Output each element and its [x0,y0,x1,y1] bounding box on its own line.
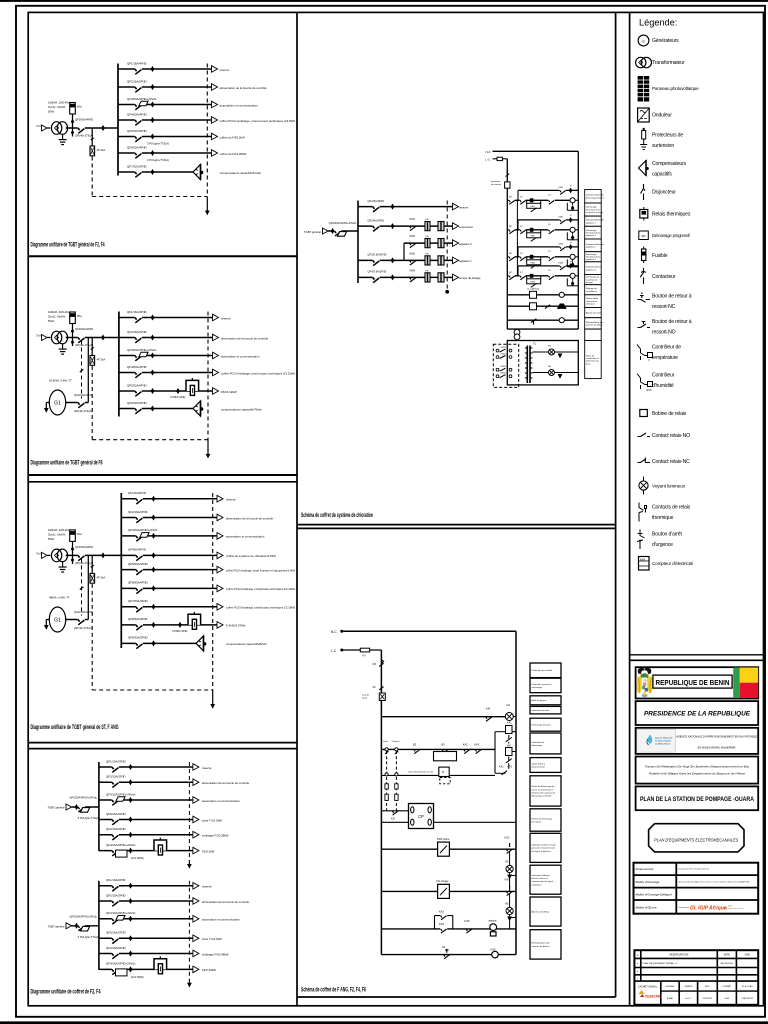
svg-text:FR: FR [426,270,429,272]
svg-text:3 PVLight+TT&(A): 3 PVLight+TT&(A) [147,158,169,162]
svg-text:Panneau photovoltaïque: Panneau photovoltaïque [652,86,699,91]
svg-text:coffret PCGI (éclairage, prise: coffret PCGI (éclairage, prise) locaux t… [220,119,296,123]
junction M1 input [331,228,335,234]
wire dashed right [188,881,190,979]
svg-text:QF2/16A/2P/ID: QF2/16A/2P/ID [128,510,148,514]
svg-text:01/ELE/2021: 01/ELE/2021 [742,998,754,1000]
junction connector [129,764,133,770]
svg-text:Indication/Sortie de: Indication/Sortie de [586,243,605,246]
svg-text:KM4: KM4 [559,263,564,265]
svg-text:automatism et communication: automatism et communication [220,103,259,107]
junction diamond KM3 [569,244,573,250]
wire [493,158,498,160]
wire [47,554,50,556]
wire metering tap [72,324,74,347]
breaker QF2 [112,834,119,836]
svg-text:G1: G1 [54,401,61,407]
legend pushbutton NO icon [638,322,651,328]
svg-text:agitateur 2: agitateur 2 [586,258,597,261]
description cell M2-13 [530,930,561,959]
wire rung S4 [381,954,516,956]
svg-text:distance des signaux de: distance des signaux de [532,792,556,795]
wire feeder [99,918,193,920]
panel border P3 top [28,481,297,483]
wire N-C top [342,630,516,632]
arrow outgoing [193,935,199,942]
wire feeder [99,766,193,768]
arrow down H5 [507,917,512,922]
description cell M1-3 [585,216,602,226]
contact KA3 coil [506,885,512,895]
svg-text:Contacteur: Contacteur [652,274,676,280]
wire outgoing drop [207,440,209,454]
arrow outgoing [217,585,223,592]
wire generator riser [87,555,89,619]
arrow outgoing [212,133,218,140]
wire rung CP top [381,810,408,812]
svg-text:QF5/32A/4P/ID: QF5/32A/4P/ID [127,129,147,133]
svg-text:QF5/16A/2P/ID: QF5/16A/2P/ID [106,931,126,935]
input arrow P1 TGBT F2 F4 [42,125,48,131]
tap marks [71,329,74,334]
generator G1 P2 TGBT F6 [49,390,65,415]
breaker QF1 [135,68,142,70]
breaker QF2 M1 [373,225,380,227]
svg-text:compensateurs capacitifs/5 kVa: compensateurs capacitifs/5 kVar [220,171,262,175]
tap marks [71,546,74,551]
description cell M2-1 [530,663,561,678]
wire [526,230,528,233]
svg-text:KM: KM [507,744,511,747]
coil KA1 box [434,752,457,761]
svg-text:Arrêt d'urgence: Arrêt d'urgence [532,699,548,702]
wire feeder [99,968,193,970]
svg-text:QF2/10A/2P/ID: QF2/10A/2P/ID [106,893,126,897]
svg-text:Indication de arrêt: Indication de arrêt [532,709,550,712]
junction connector [151,315,155,321]
wire rung CP bottom left [381,821,408,823]
busbar M1 [357,201,359,284]
residual device [81,926,90,931]
contact X2 [506,757,512,764]
wire bracket [566,203,568,211]
svg-text:agitateur 1: agitateur 1 [586,234,597,237]
arrow outgoing [217,514,223,521]
legend inverter icon [638,108,650,122]
wire main bus feed [66,554,122,556]
svg-text:Ingénieurs conseils: Ingénieurs conseils [728,908,743,910]
wire [572,259,574,262]
wire [502,158,507,160]
svg-text:FR: FR [373,662,377,666]
wire surge branch [91,338,93,356]
svg-text:Alarmes de défaut: Alarmes de défaut [532,910,550,913]
svg-text:alarmes de défaut: alarmes de défaut [586,324,603,327]
arrow outgoing [193,816,199,823]
capacitor bank compensator [193,164,203,180]
wire feeder [119,355,213,357]
wire generator riser [87,338,89,403]
svg-text:QF2/16A/2P/ID: QF2/16A/2P/ID [127,79,147,83]
svg-text:Contacts de relais: Contacts de relais [652,505,691,511]
breaker QF2 [135,86,142,88]
CESECMIC logo [639,990,645,994]
ground [59,344,67,355]
svg-text:60a: 60a [77,314,82,318]
wire metering tap [72,114,74,137]
wire [540,257,542,260]
svg-text:Indication d'alarme: Indication d'alarme [532,874,551,877]
junction connector [129,898,133,904]
junction connector [152,496,156,502]
middle column right edge [615,12,617,997]
relay box [527,233,541,238]
svg-text:Bouton de retour à: Bouton de retour à [652,319,692,325]
arrow indicator B [558,374,563,379]
svg-text:d'urgence: d'urgence [652,542,673,548]
svg-text:KM1: KM1 [410,217,416,221]
arrow down generator [44,625,49,630]
svg-text:Distance: Distance [392,740,401,743]
svg-text:KM2: KM2 [410,251,416,255]
contact KA3 [475,749,481,753]
wire feeder [118,119,212,121]
arrow outgoing [213,369,219,376]
wire [575,199,578,201]
svg-text:Schéma de coffret de système d: Schéma de coffret de système de chlorati… [301,512,373,519]
legend contact NO icon [638,433,651,437]
wire rung [507,319,578,321]
svg-text:(3P)40+1T&(A): (3P)40+1T&(A) [75,134,93,138]
svg-text:Relais thermiques: Relais thermiques [652,211,691,217]
input arrow [66,804,72,810]
svg-text:QF4/16A/2P/ID+24Vdc: QF4/16A/2P/ID+24Vdc [106,843,136,847]
svg-text:QF2/6A/2P/ID: QF2/6A/2P/ID [368,218,385,222]
wire outgoing drop [188,860,190,864]
wire feeder [99,885,193,887]
wire aux drop [517,220,519,230]
svg-text:PLAN D'EQUIPMENTS ELECTROMECAN: PLAN D'EQUIPMENTS ELECTROMECANIALES [654,837,739,842]
svg-text:VERIFIE: VERIFIE [685,986,693,988]
breaker QF1 [136,498,143,500]
svg-text:Démarrage manuel: Démarrage manuel [532,724,551,727]
legend generator icon [638,35,649,46]
svg-text:FR: FR [426,219,429,221]
junction connector [151,134,155,140]
wire feeder [121,624,217,626]
contact KA2 coil [506,843,512,853]
wire [532,372,548,374]
wire [46,619,49,621]
alarm sounder [557,304,567,309]
middle box M2 bottom [297,996,616,998]
svg-text:CESECMIC: CESECMIC [645,995,663,999]
breaker QF0 P3 TGBT ST FANG [78,554,85,556]
wire outgoing drop [188,979,190,983]
svg-text:Indication d'alarme haute: Indication d'alarme haute [532,844,557,847]
wire [45,403,47,409]
svg-text:surpresse chargne: surpresse chargne [586,211,604,214]
junction connector [152,585,156,591]
junction connector [151,370,155,376]
breaker QF4 [136,554,143,556]
legend transformer icon [636,57,646,67]
junction connector [151,102,155,108]
wire branch [403,243,405,260]
svg-text:4P 2kA: 4P 2kA [97,148,106,152]
svg-text:Entrée de démarrage: Entrée de démarrage [532,817,553,820]
residual device [140,533,149,538]
svg-text:QF5/63A/4P/ID: QF5/63A/4P/ID [128,562,148,566]
arrow down outgoing [210,704,215,709]
breaker QF8 [136,624,143,626]
junction connector [151,353,155,359]
svg-text:Réinitialisation des: Réinitialisation des [532,942,551,945]
wire dashed M1 [446,201,448,292]
svg-text:Compteur d'électricité: Compteur d'électricité [652,561,694,566]
svg-text:réservé: réservé [220,68,230,72]
svg-text:H2: H2 [507,703,511,707]
wire incoming M1 [328,230,358,232]
breaker SP [91,138,94,140]
legend temperature controller icon [637,345,648,361]
description cell M2-8 [530,776,561,806]
svg-text:automation et communication: automation et communication [202,918,240,922]
contact KSI [392,811,398,815]
svg-text:pression et transmission: pression et transmission [532,847,556,850]
wire surge branch [91,128,93,146]
svg-text:QF2/16A/2P/ID: QF2/16A/2P/ID [127,330,147,334]
svg-text:KA1: KA1 [499,765,504,768]
description cell M1-4 [585,226,602,239]
remote contact pair 2 [496,356,499,359]
description cell M2-11 [530,865,561,894]
tap marks [71,119,74,124]
svg-text:éclairage F2/0.38kW: éclairage F2/0.38kW [202,834,229,838]
breaker QF6 [135,152,142,154]
junction connector [391,223,395,229]
breaker QF2 [112,953,119,955]
svg-text:Disjoncteur: Disjoncteur [652,189,676,195]
arrow outgoing [193,966,199,973]
svg-text:réservoir de: réservoir de [586,300,598,303]
wire dashed bottom [92,196,207,198]
contactor KM3 [410,243,416,248]
svg-text:démarrage et d'arrêt: démarrage et d'arrêt [532,795,552,798]
transformer TR P2 TGBT F6 [51,331,67,344]
svg-text:3 PVLight+TT&(A): 3 PVLight+TT&(A) [78,935,100,939]
arrow down outgoing [187,983,192,988]
svg-text:capacitifs: capacitifs [652,172,672,178]
wire rung [507,305,578,307]
description cell M1-11 [585,308,602,318]
svg-text:pompe de dosage: pompe de dosage [459,276,481,280]
svg-text:coffret PCGI (éclairage, prise: coffret PCGI (éclairage, prise)/locaux t… [226,587,295,591]
svg-text:3 PVLight+TT&(A): 3 PVLight+TT&(A) [78,816,100,820]
svg-text:QF3/63A/2P/ID+24Vdc: QF3/63A/2P/ID+24Vdc [127,348,157,352]
arrow outgoing [453,223,459,230]
wire aux drop [517,190,519,200]
junction connector [152,567,156,573]
wire branch up [434,916,436,929]
arrow outgoing [217,604,223,611]
voltage protection relay [505,182,510,188]
wire feeder [118,171,193,173]
svg-text:KM1-1: KM1-1 [501,347,508,349]
wire right rail M2 [515,631,517,954]
junction [101,552,105,558]
motor protection relay [154,838,167,855]
svg-text:50Hz: 50Hz [48,537,55,541]
interlock contact [80,587,84,590]
arrow outgoing [453,240,459,247]
svg-text:Dyn11, Ukr6%,: Dyn11, Ukr6%, [48,532,66,536]
arrow outgoing [213,388,219,395]
svg-text:Indication de: Indication de [532,741,545,744]
svg-text:réservé: réservé [202,766,212,770]
wire rung selector [381,748,495,750]
junction connector [151,335,155,341]
svg-text:KM3-1: KM3-1 [501,366,508,368]
wire feeder [358,206,453,208]
svg-text:N-C: N-C [486,150,492,154]
arrow outgoing [212,101,218,108]
remote contact pair 3 [496,368,499,371]
svg-text:FR: FR [426,253,429,255]
wire left rail M1 [506,159,508,329]
emergency stop device [379,693,385,701]
svg-text:Diagramme unifilaire de TGBT g: Diagramme unifilaire de TGBT général de … [31,724,119,731]
svg-text:Diagramme unifilaire de TGBT g: Diagramme unifilaire de TGBT général de … [31,459,103,466]
wire feeder [99,781,193,783]
svg-text:électrique de la: électrique de la [586,232,601,235]
box CH [530,303,537,310]
arrow outgoing [193,883,199,890]
svg-text:QF1/10A/2P/ID: QF1/10A/2P/ID [106,759,126,763]
wire feeder [121,606,217,608]
selector contact Local [385,748,388,751]
breaker QF2 [112,900,119,902]
thermal contact FR [379,660,383,667]
wire feeder [119,317,213,319]
svg-text:local: local [586,363,591,365]
remote contact pair 4 [496,375,499,378]
breaker QF1 [112,885,119,887]
svg-text:FR: FR [426,236,429,238]
svg-text:surpresseur: surpresseur [459,225,473,229]
breaker QF5 [136,569,143,571]
breaker QF5 [135,390,142,392]
residual device [116,797,125,802]
svg-text:commande et: commande et [586,357,599,360]
breaker QF0 [78,925,85,927]
svg-text:Onduleur: Onduleur [652,112,672,118]
arrow outgoing [453,274,459,281]
busbar P2 TGBT F6 [118,312,120,417]
svg-text:coffret PCGI (éclairage, prise: coffret PCGI (éclairage, prise)/locaux t… [226,606,295,610]
junction connector [151,406,155,412]
description cell M2-2 [530,678,561,693]
junction connector [152,533,156,539]
contactor KM1 [410,226,416,231]
svg-text:Alarme de chute: Alarme de chute [586,311,602,314]
junction connector [129,966,133,972]
wire generator feed [66,619,89,621]
svg-text:agitateur 2: agitateur 2 [459,242,472,246]
arrow outgoing [217,566,223,573]
legend surge protector icon [642,131,646,140]
svg-text:Maître d'Ouvrage: Maître d'Ouvrage [636,880,660,884]
svg-text:KA3: KA3 [474,742,479,746]
junction connector [129,797,133,803]
svg-text:KA2: KA2 [505,835,510,839]
scan bar bottom [0,1021,768,1024]
svg-text:(3x1.5(PE): (3x1.5(PE) [131,856,144,860]
module PSH [438,842,450,856]
junction [101,125,105,131]
svg-text:LSL-forage: LSL-forage [436,880,449,883]
arrow outgoing [217,533,223,540]
svg-text:automatism et communication: automatism et communication [226,535,265,539]
svg-text:APP.: APP. [705,985,710,988]
breaker QF2 [136,517,143,519]
wire series link [516,200,518,275]
breaker QG0 [78,619,85,621]
svg-text:QG0/40A/4P/ID: QG0/40A/4P/ID [74,393,93,397]
description cell M1-8 [585,275,602,285]
svg-text:Sortie du démarrage du: Sortie du démarrage du [532,785,556,788]
svg-text:48kVA, 0.4kV, TT: 48kVA, 0.4kV, TT [49,596,70,600]
svg-text:Financement: Financement [636,867,654,871]
surge protector SP [90,573,95,583]
svg-text:Contact relais-NO: Contact relais-NO [652,433,690,439]
description cell M1-2 [585,203,602,216]
svg-text:L-C: L-C [331,649,337,653]
divider left/middle columns [296,12,298,1005]
svg-text:PSH-hydro: PSH-hydro [437,838,450,841]
svg-text:PRESIDENCE DE LA REPUBLIQUE: PRESIDENCE DE LA REPUBLIQUE [644,711,751,718]
svg-text:alimentation de la boucle de c: alimentation de la boucle de contrôle [202,781,249,785]
coil KM1 [570,198,575,203]
junction connector [129,916,133,922]
panel border P3 bottom [28,742,297,744]
junction [75,923,79,929]
junction connector [151,66,155,72]
svg-text:KA5: KA5 [465,919,470,923]
svg-text:KM2: KM2 [559,217,564,219]
junction connector [129,848,133,854]
description cell M1-14 [585,341,602,379]
svg-text:indications du: indications du [586,360,600,363]
breaker QF0 P2 TGBT F6 [78,337,85,339]
svg-text:QF2/10A/2P/ID: QF2/10A/2P/ID [106,946,126,950]
wire [516,339,518,342]
svg-text:QF2/10A/2P/ID: QF2/10A/2P/ID [106,775,126,779]
junction square [530,228,534,232]
svg-text:Démarrage de: Démarrage de [586,276,600,279]
fuse F0 P1 TGBT F2 F4 [70,103,76,115]
description cell M1-7 [585,262,602,275]
svg-text:démarrage distance: démarrage distance [586,196,605,199]
description cell M1-12 [585,318,602,329]
svg-text:retour et maintenant à: retour et maintenant à [532,788,554,791]
svg-text:thermique: thermique [652,515,674,521]
arrow outgoing [212,150,218,157]
legend thermal relay contact icon [639,503,647,522]
contact X1 [506,735,512,744]
svg-text:(3P)40+1T&(A): (3P)40+1T&(A) [74,626,92,630]
svg-text:coffret du F4/5.2kW: coffret du F4/5.2kW [220,135,245,139]
